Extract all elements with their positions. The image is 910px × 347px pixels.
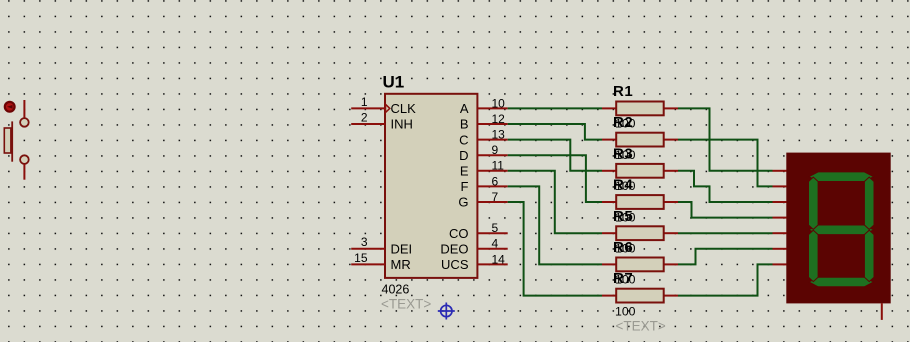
svg-text:B: B [460, 117, 469, 132]
wire R3 to display segment c [678, 171, 773, 202]
U1 clock input triangle on pin CLK [386, 104, 390, 112]
U1 pin 6 (F) stub [477, 185, 507, 187]
svg-text:2: 2 [361, 110, 368, 124]
U1 pin 3 (DEI) stub [351, 248, 385, 250]
resistor R3 right pin stub [664, 170, 678, 172]
display segment a (lit) [809, 172, 874, 182]
push button top contact [20, 118, 29, 127]
resistor R4 right pin stub [664, 201, 678, 203]
svg-text:F: F [461, 179, 469, 194]
wire U1 pin D to R4 [508, 155, 602, 202]
U1 pin 14 (UCS) stub [477, 263, 507, 265]
svg-text:14: 14 [492, 252, 506, 266]
push button actuator [5, 102, 15, 112]
svg-text:DEO: DEO [440, 242, 468, 257]
wire R4 to display segment d [678, 202, 773, 218]
svg-text:4026: 4026 [382, 283, 410, 297]
display segment e (lit) [809, 230, 819, 281]
display segment c (lit) [864, 230, 874, 281]
svg-text:1: 1 [361, 95, 368, 109]
svg-text:CO: CO [449, 226, 469, 241]
U1 pin 4 (DEO) stub [477, 248, 507, 250]
wire R6 to display segment f [678, 249, 773, 265]
svg-text:MR: MR [391, 257, 411, 272]
svg-text:R4: R4 [613, 177, 633, 194]
wire U1 pin F to R6 [508, 186, 602, 264]
resistor R2 right pin stub [664, 139, 678, 141]
svg-text:R6: R6 [613, 239, 633, 256]
svg-text:UCS: UCS [441, 257, 469, 272]
wire U1 pin A to R1 [508, 107, 602, 109]
U1 pin 13 (C) stub [477, 139, 507, 141]
7-segment display body [786, 153, 890, 304]
resistor R2 left pin stub [602, 139, 616, 141]
resistor R4 body [616, 195, 664, 209]
resistor R4 left pin stub [602, 201, 616, 203]
push button bar [4, 128, 11, 153]
wire U1 pin B to R2 [508, 124, 602, 140]
resistor R2 body [616, 133, 664, 147]
resistor R7 left pin stub [602, 295, 616, 297]
wire R2 to display segment b [678, 140, 773, 187]
display pin c stub [773, 201, 787, 203]
display pin e stub [773, 232, 787, 234]
svg-text:C: C [459, 132, 468, 147]
svg-text:<TEXT>: <TEXT> [616, 318, 666, 333]
svg-text:10: 10 [492, 96, 506, 110]
push button bottom contact [20, 155, 29, 164]
wire R1 to display segment a [678, 108, 773, 170]
svg-text:4: 4 [492, 237, 499, 251]
svg-text:15: 15 [354, 251, 368, 265]
svg-text:CLK: CLK [391, 101, 417, 116]
svg-text:R2: R2 [613, 114, 633, 131]
display segment g (lit) [809, 225, 874, 235]
svg-text:7: 7 [492, 190, 499, 204]
U1 pin 5 (CO) stub [477, 232, 507, 234]
svg-text:<TEXT>: <TEXT> [381, 297, 431, 312]
svg-text:5: 5 [492, 221, 499, 235]
resistor R5 right pin stub [664, 232, 678, 234]
U1 pin 2 (INH) stub [351, 123, 385, 125]
display segment b (lit) [864, 177, 874, 229]
U1 pin 12 (B) stub [477, 123, 507, 125]
svg-text:INH: INH [391, 117, 413, 132]
U1 pin 15 (MR) stub [351, 263, 385, 265]
wire U1 pin C to R3 [508, 140, 602, 171]
display pin g stub [773, 263, 787, 265]
svg-text:G: G [458, 195, 468, 210]
U1 pin 7 (G) stub [477, 201, 507, 203]
svg-text:DEI: DEI [391, 242, 413, 257]
display pin d stub [773, 217, 787, 219]
push button plunger line [11, 121, 13, 161]
U1 pin 9 (D) stub [477, 154, 507, 156]
resistor R1 right pin stub [664, 107, 678, 109]
push button pin 1 wire stub (top) [23, 100, 25, 118]
resistor R6 body [616, 258, 664, 272]
resistor R6 right pin stub [664, 263, 678, 265]
svg-text:9: 9 [492, 143, 499, 157]
resistor R6 left pin stub [602, 263, 616, 265]
svg-text:D: D [459, 148, 468, 163]
IC U1 body (4026) [385, 94, 477, 278]
U1 pin 11 (E) stub [477, 170, 507, 172]
resistor R5 left pin stub [602, 232, 616, 234]
resistor R3 body [616, 164, 664, 178]
display pin b stub [773, 185, 787, 187]
svg-text:13: 13 [492, 128, 506, 142]
resistor R7 right pin stub [664, 295, 678, 297]
wire U1 pin G to R7 [508, 202, 602, 296]
resistor R3 left pin stub [602, 170, 616, 172]
wire R5 to display segment e [678, 232, 773, 234]
wire R7 to display segment g [678, 264, 773, 295]
U1 pin 10 (A) stub [477, 107, 507, 109]
display common pin stub (bottom) [881, 303, 883, 320]
svg-text:R7: R7 [613, 270, 633, 287]
svg-text:R3: R3 [613, 145, 633, 162]
wire U1 pin E to R5 [508, 171, 602, 233]
svg-text:R1: R1 [613, 83, 633, 100]
svg-text:12: 12 [492, 112, 506, 126]
resistor R5 body [616, 226, 664, 240]
svg-text:A: A [460, 101, 469, 116]
U1 pin 1 (CLK) stub [351, 107, 385, 109]
svg-text:11: 11 [492, 159, 505, 173]
svg-text:100: 100 [615, 304, 636, 318]
resistor R1 left pin stub [602, 107, 616, 109]
svg-text:U1: U1 [383, 73, 405, 92]
display pin a stub [773, 170, 787, 172]
svg-text:E: E [460, 164, 469, 179]
display pin f stub [773, 248, 787, 250]
display segment f (lit) [809, 177, 819, 229]
svg-text:3: 3 [361, 235, 368, 249]
svg-text:6: 6 [492, 174, 499, 188]
blue origin marker [438, 303, 455, 320]
push button pin 2 wire stub (bottom) [23, 164, 25, 180]
resistor R7 body [616, 289, 664, 303]
svg-text:R5: R5 [613, 208, 633, 225]
resistor R1 body [616, 102, 664, 116]
display segment d (lit) [809, 277, 874, 287]
